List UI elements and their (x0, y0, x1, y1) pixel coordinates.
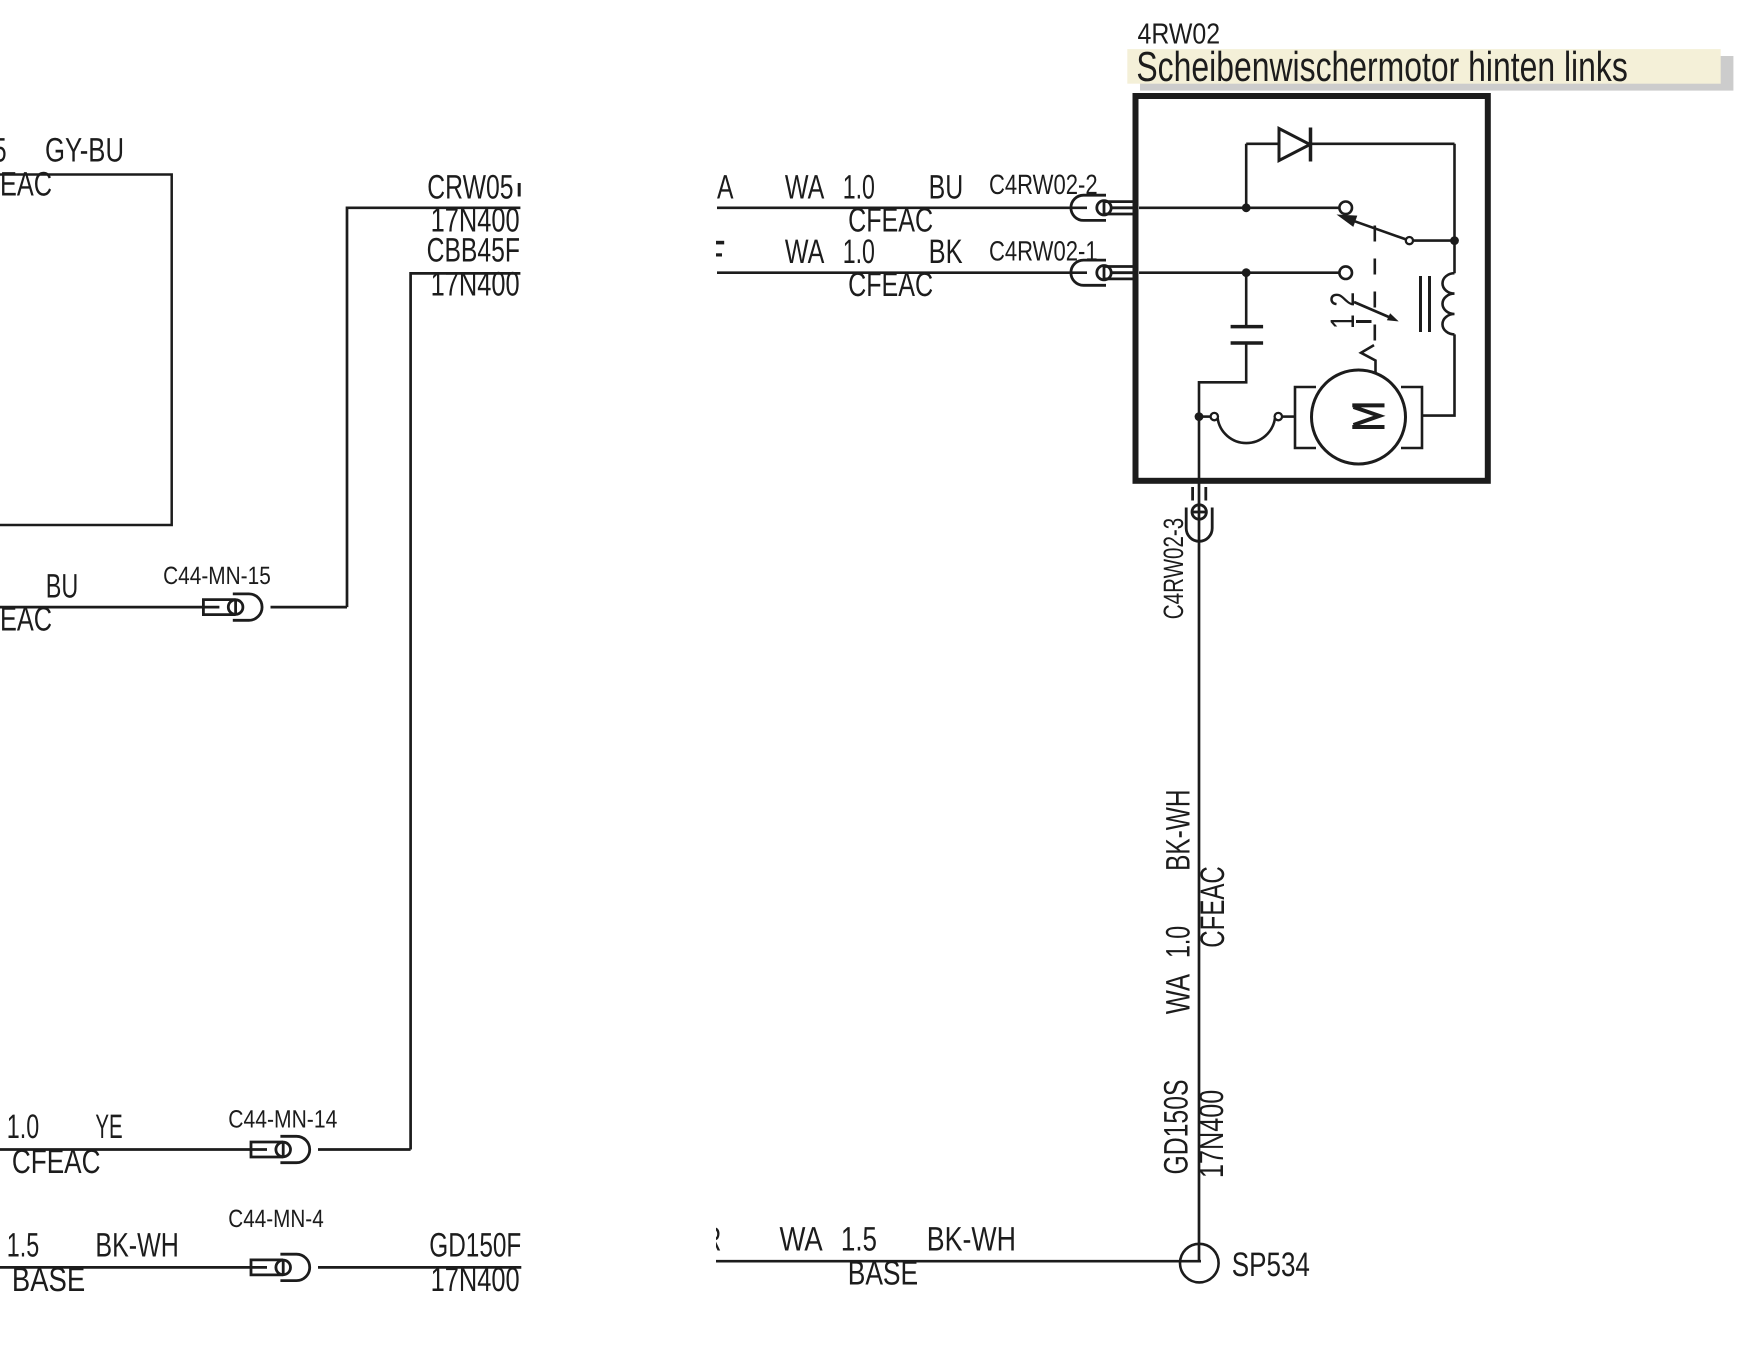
svg-text:WA: WA (785, 168, 825, 206)
svg-text:BK-WH: BK-WH (1159, 790, 1197, 871)
svg-text:BK: BK (929, 233, 963, 271)
svg-text:C4RW02-3: C4RW02-3 (1158, 518, 1189, 619)
svg-text:CFEAC: CFEAC (12, 1143, 101, 1181)
svg-text:BASE: BASE (848, 1255, 919, 1293)
svg-text:BU: BU (929, 168, 964, 206)
svg-text:1.0: 1.0 (1159, 926, 1197, 958)
svg-text:5: 5 (0, 132, 7, 170)
svg-text:1.0: 1.0 (7, 1108, 39, 1146)
svg-text:17N400: 17N400 (1193, 1090, 1231, 1178)
svg-text:C44-MN-15: C44-MN-15 (163, 562, 271, 590)
svg-text:WA: WA (785, 233, 825, 271)
svg-text:SP534: SP534 (1232, 1246, 1310, 1284)
svg-text:YE: YE (95, 1108, 122, 1146)
svg-text:Scheibenwischermotor hinten li: Scheibenwischermotor hinten links (1136, 43, 1627, 90)
svg-text:CBB45F: CBB45F (427, 232, 520, 270)
svg-text:BK-WH: BK-WH (927, 1221, 1016, 1259)
svg-text:WA: WA (780, 1221, 823, 1259)
svg-text:A: A (717, 168, 734, 206)
svg-text:CFEAC: CFEAC (848, 266, 933, 304)
svg-text:WA: WA (1159, 974, 1197, 1014)
svg-text:1.5: 1.5 (7, 1227, 39, 1265)
svg-text:17N400: 17N400 (431, 266, 520, 304)
svg-text:GY-BU: GY-BU (45, 132, 124, 170)
svg-text:BASE: BASE (12, 1261, 85, 1299)
svg-text:GD150F: GD150F (429, 1227, 521, 1265)
svg-text:1 2: 1 2 (1324, 292, 1362, 329)
svg-text:GD150S: GD150S (1158, 1080, 1196, 1175)
svg-text:EAC: EAC (0, 166, 52, 204)
svg-text:1.5: 1.5 (841, 1221, 877, 1259)
svg-text:17N400: 17N400 (431, 1261, 520, 1299)
svg-text:C44-MN-14: C44-MN-14 (228, 1105, 337, 1133)
svg-text:EAC: EAC (0, 601, 52, 639)
svg-text:C44-MN-4: C44-MN-4 (228, 1205, 323, 1233)
svg-text:CFEAC: CFEAC (1194, 866, 1232, 947)
svg-text:BK-WH: BK-WH (95, 1227, 178, 1265)
